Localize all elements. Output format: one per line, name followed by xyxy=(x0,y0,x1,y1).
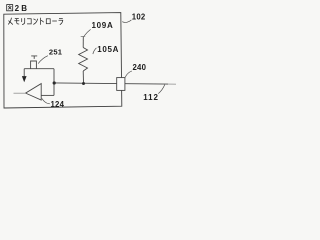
コ xyxy=(27,19,31,24)
arrowhead (down) xyxy=(22,76,27,82)
tick at node 109A xyxy=(81,35,86,37)
wire: resistor bottom lead xyxy=(82,71,84,83)
leader 102 xyxy=(122,20,131,23)
wire: bus faded right end xyxy=(168,83,176,85)
svg-text:B: B xyxy=(21,4,27,13)
leader 240 xyxy=(125,71,132,78)
svg-text:109A: 109A xyxy=(92,21,114,30)
svg-text:251: 251 xyxy=(49,48,63,57)
ン xyxy=(34,19,38,24)
junction dot (drain / op-amp input on bus) xyxy=(53,81,56,84)
svg-text:102: 102 xyxy=(132,12,146,21)
transistor 251 gate bar xyxy=(31,56,37,59)
wire: transistor source lead down xyxy=(23,69,25,77)
wire: transistor drain to bus junction xyxy=(53,69,55,96)
terminal box 240 xyxy=(117,78,125,91)
transistor 251 channel line xyxy=(24,68,54,70)
leader 251 xyxy=(38,56,48,64)
ラ xyxy=(59,18,63,24)
svg-text:112: 112 xyxy=(143,93,159,102)
wire: resistor top lead (node 109A) xyxy=(82,37,84,48)
title figure label 図2B xyxy=(7,5,13,11)
leader 109A xyxy=(84,29,90,36)
リ xyxy=(22,18,25,24)
junction dot (resistor to bus) xyxy=(82,82,85,85)
label メモリコントローラ (memory controller) xyxy=(8,18,62,25)
resistor 105A xyxy=(79,48,88,72)
leader 112 xyxy=(158,85,165,94)
wire: bit line bus 112 (horizontal) xyxy=(54,83,168,84)
box: memory controller 102 xyxy=(4,13,122,108)
svg-text:105A: 105A xyxy=(97,45,119,54)
op-amp 124 (triangle, points left) xyxy=(26,84,42,100)
transistor 251 hump xyxy=(31,61,37,69)
leader 124 xyxy=(42,98,50,103)
svg-text:240: 240 xyxy=(133,63,147,72)
ト xyxy=(41,18,44,25)
メ xyxy=(8,18,12,24)
wire: op-amp output (faded) xyxy=(14,92,26,94)
ー xyxy=(53,20,57,22)
leader 105A xyxy=(93,48,97,54)
svg-text:2: 2 xyxy=(15,4,20,13)
ロ xyxy=(46,19,50,24)
wire: op-amp input (horizontal) xyxy=(41,94,54,96)
svg-text:124: 124 xyxy=(51,100,65,109)
モ xyxy=(15,19,19,24)
